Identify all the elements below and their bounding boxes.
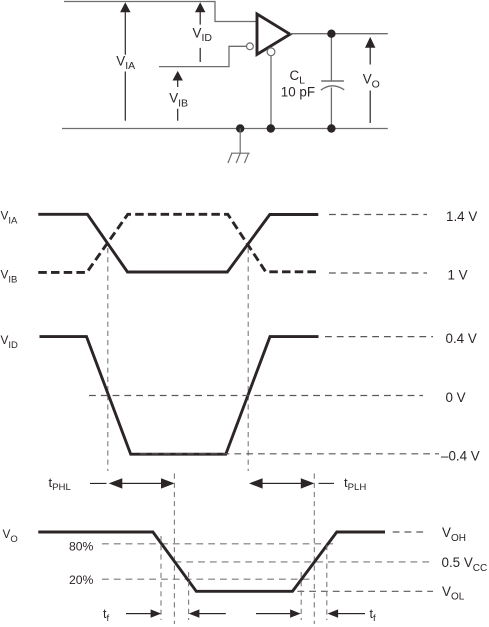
svg-text:VIA: VIA [1, 208, 19, 226]
svg-text:80%: 80% [69, 540, 94, 554]
arrow tf rise right pointer [328, 609, 366, 617]
arrow tf rise left pointer [256, 609, 301, 617]
svg-text:0 V: 0 V [446, 390, 466, 405]
svg-text:VIB: VIB [1, 267, 18, 285]
vertical dashed line 80 percent fall crossing [160, 536, 162, 620]
reference dashed line VOH [393, 531, 428, 533]
capacitor CL bottom lead [330, 88, 332, 129]
node junction dot CL bottom on rail [327, 124, 335, 132]
svg-text:1 V: 1 V [448, 268, 468, 283]
svg-text:VID: VID [1, 333, 19, 351]
wire from U1 ground bubble down to bottom rail [270, 56, 272, 129]
reference dashed line VOL [203, 590, 433, 592]
arrow tf fall left pointer [126, 609, 161, 617]
svg-text:VOL: VOL [442, 584, 465, 603]
arrow VO [365, 37, 375, 123]
wire VIB mid rail to inverting bubble [159, 46, 246, 66]
inverting input bubble [247, 43, 254, 50]
arrow tf fall right pointer [189, 609, 226, 617]
arrow VID [195, 2, 205, 62]
node junction dot bubble wire on rail [267, 124, 275, 132]
ground symbol [228, 129, 250, 164]
svg-text:tPLH: tPLH [344, 475, 366, 493]
svg-text:VOH: VOH [442, 525, 466, 544]
arrow tPHL double-headed [109, 478, 175, 488]
node junction dot U1 output / CL [327, 30, 335, 38]
svg-text:tf: tf [103, 607, 109, 624]
reference dashed line 1 V [329, 272, 427, 274]
svg-text:–0.4 V: –0.4 V [441, 448, 480, 463]
svg-text:20%: 20% [69, 573, 94, 587]
node junction dot ground stem on rail [236, 124, 244, 132]
reference dashed line 0 V [89, 395, 423, 397]
arrow VIB [173, 71, 183, 121]
svg-text:VO: VO [3, 527, 18, 545]
capacitor CL top lead [330, 34, 332, 81]
vertical dashed line tPLH output crossing [313, 474, 315, 625]
reference dashed line 0.5 VCC [175, 561, 434, 563]
svg-text:VIA: VIA [116, 53, 135, 72]
wire bottom rail [62, 128, 388, 130]
svg-text:0.5 VCC: 0.5 VCC [442, 555, 488, 574]
vertical dashed line at second crossing [247, 248, 249, 471]
wire U1 output to VO [290, 33, 388, 35]
reference dashed line 1.4 V [329, 214, 427, 216]
svg-text:1.4 V: 1.4 V [446, 209, 477, 224]
capacitor CL curved bottom plate [321, 86, 344, 90]
svg-text:tf: tf [370, 607, 376, 624]
vertical dashed line 20 percent rise crossing [300, 572, 302, 620]
capacitor CL top plate [321, 80, 344, 82]
waveform VO solid trace [38, 532, 385, 591]
waveform VID solid trace [40, 337, 319, 455]
arrow tPLH double-headed [249, 478, 314, 488]
leader line tPHL [90, 482, 107, 484]
waveform VIB dashed trace [38, 214, 318, 272]
vertical dashed line 20 percent fall crossing [188, 572, 190, 620]
svg-text:0.4 V: 0.4 V [446, 331, 477, 346]
waveform VIA solid trace [38, 214, 318, 272]
svg-text:VIB: VIB [169, 91, 188, 110]
vertical dashed line at first crossing [107, 248, 109, 471]
svg-text:VID: VID [193, 25, 213, 44]
svg-text:tPHL: tPHL [49, 475, 72, 493]
svg-text:10 pF: 10 pF [281, 84, 315, 99]
svg-text:VO: VO [363, 72, 380, 91]
wire top rail from VIA source to U1 noninverting input [64, 2, 257, 22]
vertical dashed line tPHL output crossing [173, 474, 175, 625]
leader line tPLH [319, 482, 335, 484]
reference dashed line 20 percent [102, 578, 310, 580]
op-amp U1 comparator triangle [257, 14, 290, 54]
reference dashed line -0.4 V [140, 453, 439, 455]
ground-pin bubble on U1 bottom edge [267, 48, 275, 56]
reference dashed line 80 percent [102, 543, 334, 545]
arrow VIA [120, 2, 130, 121]
vertical dashed line 80 percent rise crossing [326, 545, 328, 620]
reference dashed line 0.4 V [325, 336, 433, 338]
